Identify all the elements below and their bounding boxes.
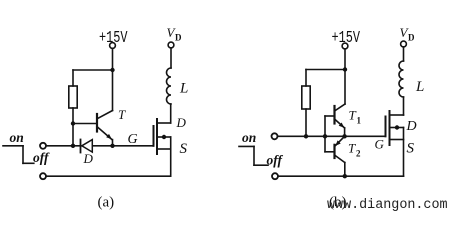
svg-text:www.diangon.com: www.diangon.com	[327, 198, 448, 213]
svg-text:on: on	[10, 130, 24, 145]
svg-text:off: off	[267, 153, 284, 168]
svg-text:G: G	[128, 132, 138, 147]
svg-text:S: S	[180, 141, 188, 157]
svg-text:on: on	[242, 130, 256, 145]
svg-text:D: D	[175, 33, 182, 43]
svg-text:S: S	[407, 141, 415, 157]
svg-text:+15V: +15V	[332, 29, 361, 48]
svg-text:D: D	[408, 33, 415, 43]
svg-text:off: off	[33, 150, 50, 165]
svg-text:1: 1	[357, 116, 362, 126]
svg-text:D: D	[83, 151, 94, 166]
svg-text:(a): (a)	[98, 195, 115, 211]
svg-text:T: T	[118, 107, 126, 122]
svg-text:T: T	[348, 141, 356, 156]
svg-text:D: D	[406, 119, 417, 134]
svg-text:L: L	[179, 81, 188, 97]
svg-text:T: T	[349, 108, 357, 123]
svg-text:L: L	[415, 79, 424, 95]
svg-text:2: 2	[356, 149, 361, 159]
svg-text:G: G	[375, 137, 385, 152]
svg-text:D: D	[176, 115, 187, 130]
svg-text:+15V: +15V	[99, 29, 128, 48]
